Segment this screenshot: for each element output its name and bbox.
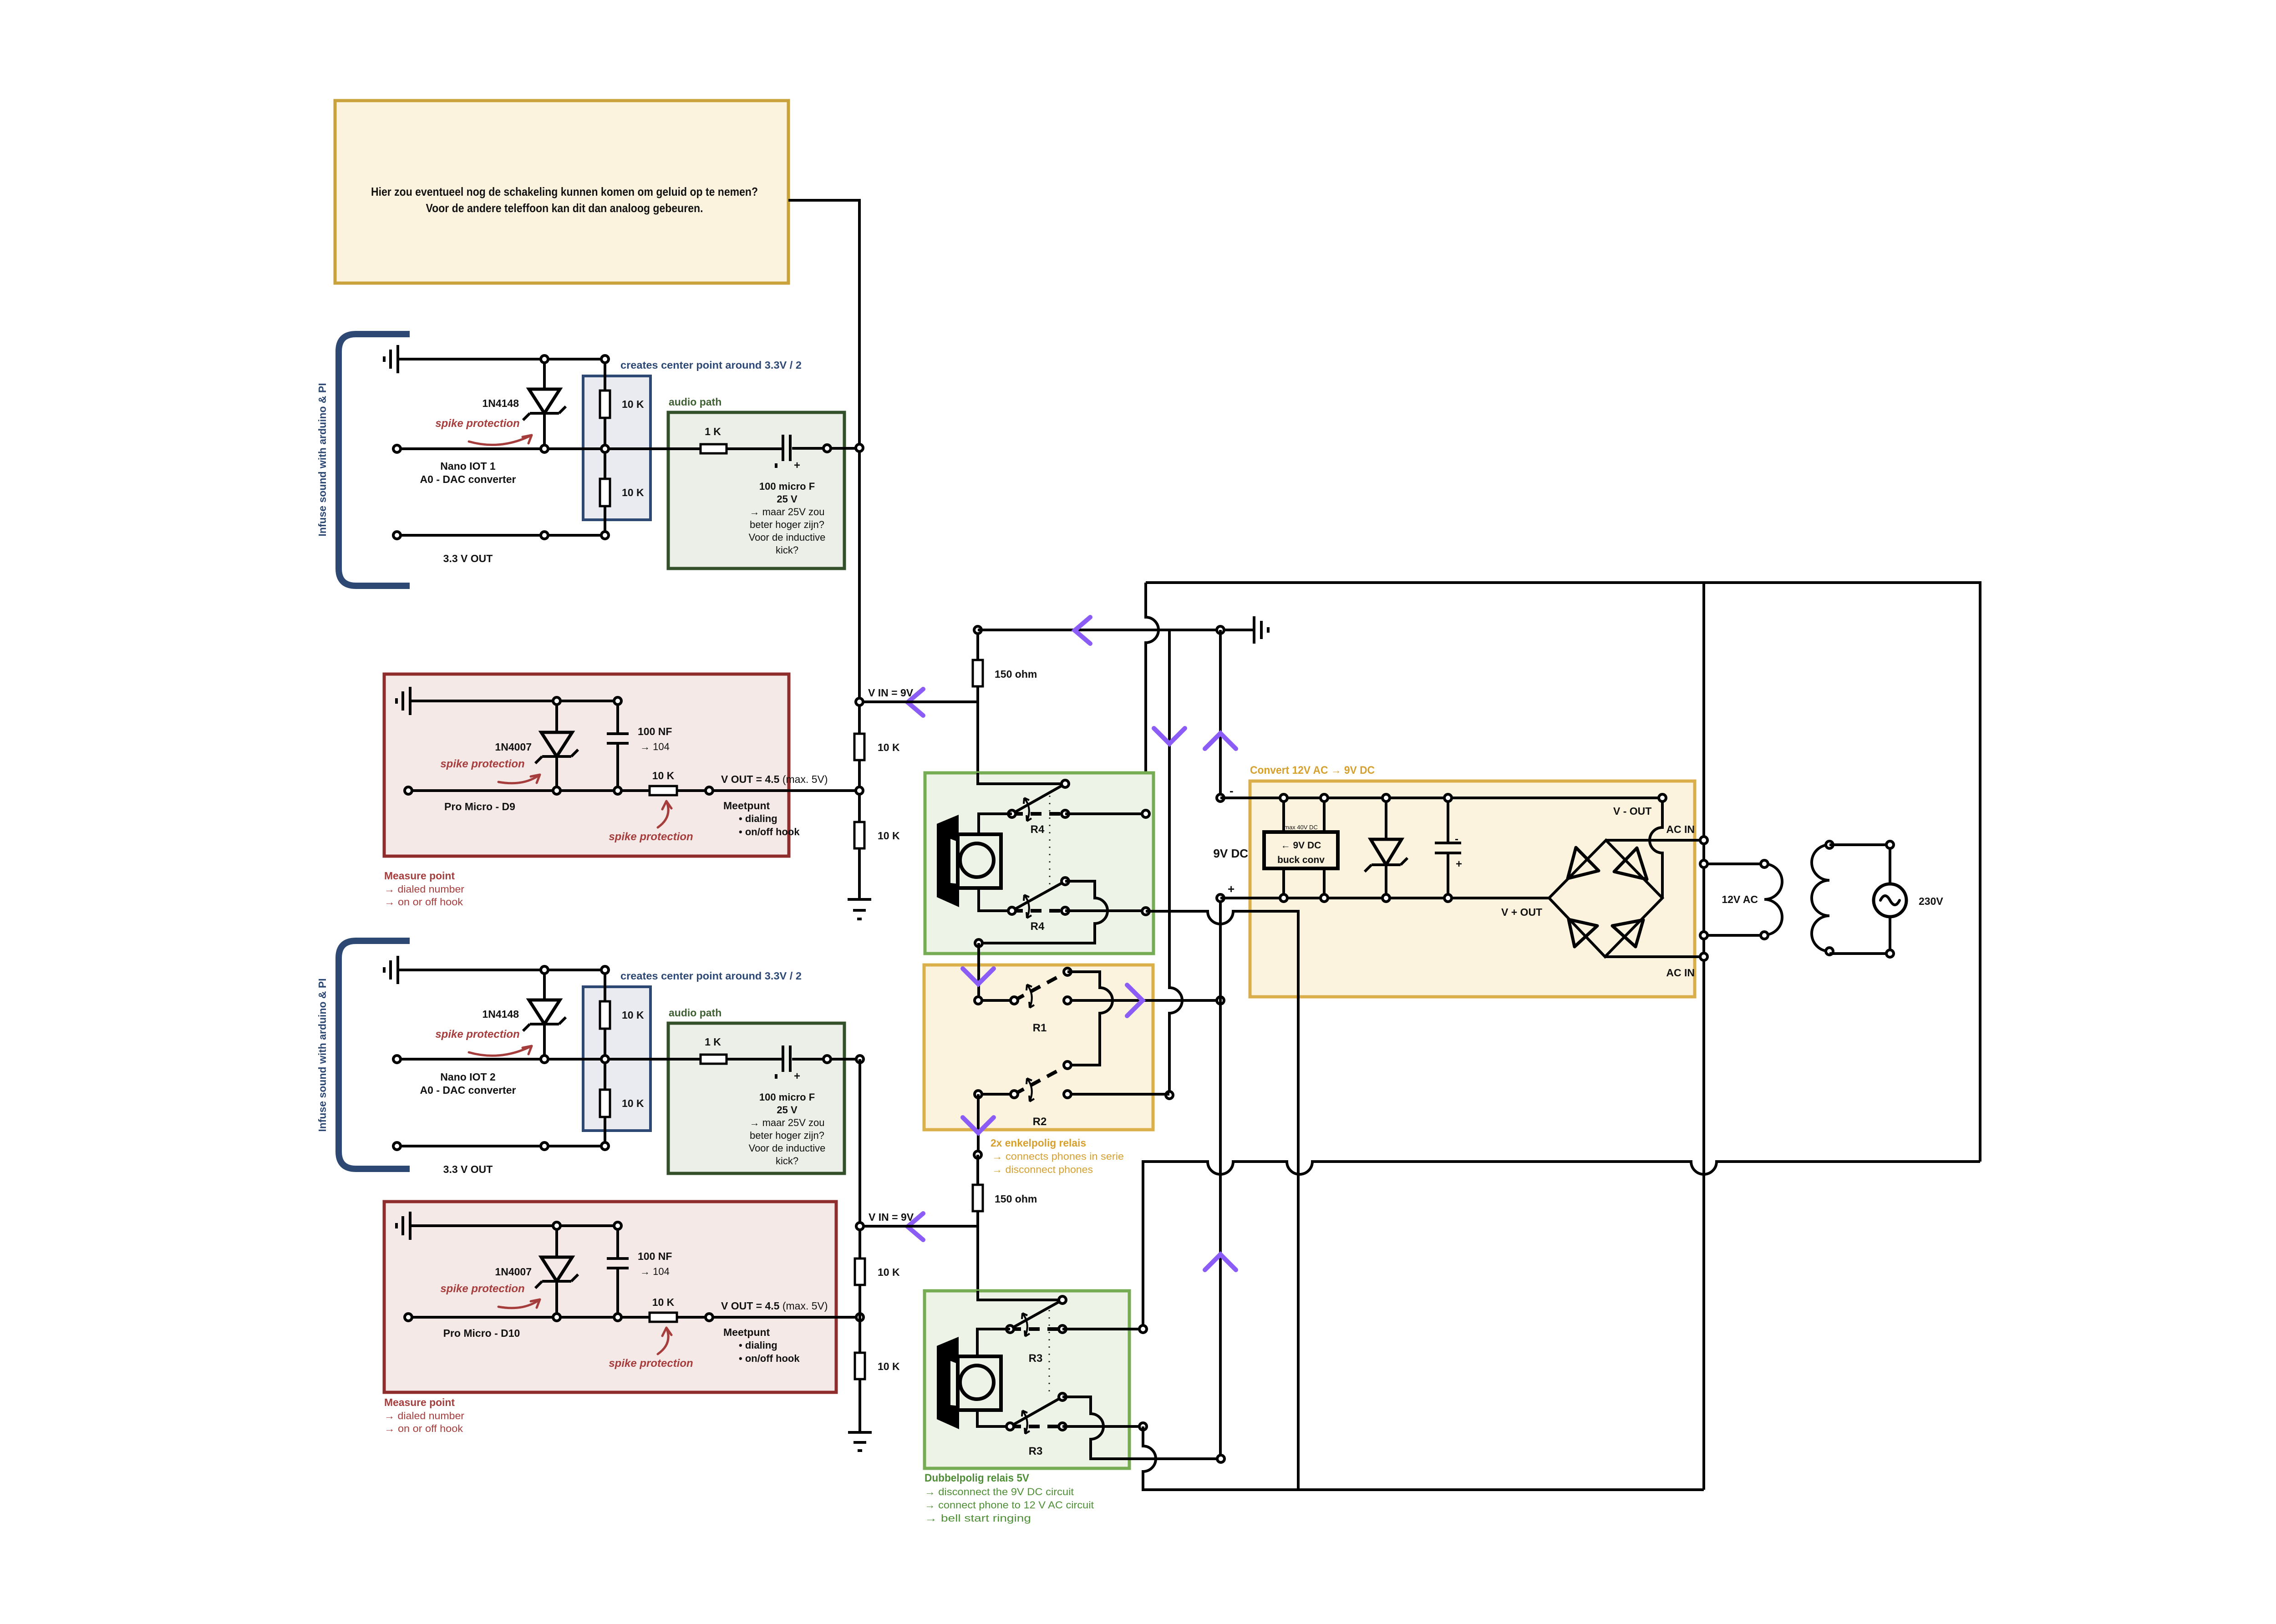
wire R3 entry — [978, 1291, 1062, 1300]
svg-text:V OUT = 4.5 (max. 5V): V OUT = 4.5 (max. 5V) — [721, 773, 828, 785]
wire audio2 out — [827, 1058, 860, 1061]
nodes buck rails — [1280, 794, 1328, 902]
chevron 9V plus up — [1205, 1254, 1236, 1270]
wire top rail D9 — [557, 700, 618, 702]
capacitor 100uF audio 1 — [776, 435, 823, 472]
svg-text:spike protection: spike protection — [440, 1283, 524, 1295]
nodes transformer trunk — [1700, 837, 1707, 960]
svg-text:100 NF: 100 NF — [638, 1250, 672, 1262]
svg-text:V + OUT: V + OUT — [1501, 906, 1542, 918]
node R4 top fixed out — [1142, 810, 1149, 817]
wire V IN upper — [859, 700, 978, 703]
resistor 10K divider top 1 — [600, 391, 610, 418]
wire V IN lower — [860, 1225, 978, 1228]
svg-text:audio path: audio path — [669, 1007, 721, 1019]
switch R3 top — [1006, 1296, 1066, 1336]
svg-text:→ maar 25V zou: → maar 25V zou — [749, 1117, 824, 1128]
wire AC IN top — [1606, 839, 1704, 842]
svg-text:230V: 230V — [1919, 895, 1943, 907]
switch R4 bottom — [1008, 878, 1069, 918]
wire divider chain 1 — [604, 359, 606, 535]
svg-text:→ 104: → 104 — [640, 741, 670, 752]
node line B end — [1166, 1091, 1173, 1099]
svg-text:R3: R3 — [1029, 1352, 1043, 1365]
node V-OUT rail — [1659, 794, 1666, 802]
svg-text:+: + — [794, 459, 800, 472]
node top link right — [1217, 626, 1224, 634]
node R4 bottom fixed out — [1142, 908, 1149, 915]
wire 230V loop bottom — [1829, 917, 1890, 954]
resistor 1K audio 2 — [701, 1055, 726, 1064]
node 9V plus terminal — [1217, 894, 1224, 902]
label Measure point D10 — [384, 1396, 464, 1434]
wire 230V loop top — [1829, 845, 1890, 884]
svg-text:→ dialed number: → dialed number — [384, 1410, 464, 1421]
svg-text:10 K: 10 K — [878, 741, 900, 753]
node 150 ohm top — [974, 626, 981, 634]
node 9V minus terminal — [1217, 794, 1224, 802]
resistor 10K series D10 — [650, 1313, 677, 1322]
svg-text:kick?: kick? — [776, 1155, 798, 1167]
svg-text:creates center point around 3.: creates center point around 3.3V / 2 — [620, 970, 802, 982]
svg-text:V OUT = 4.5 (max. 5V): V OUT = 4.5 (max. 5V) — [721, 1300, 828, 1312]
svg-text:10 K: 10 K — [652, 770, 675, 782]
audio path box 2 — [668, 1023, 844, 1173]
label 2x enkelpolig relais — [991, 1137, 1124, 1175]
relay R1 R2 box — [924, 965, 1153, 1130]
svg-text:→ connect phone to 12 V AC cir: → connect phone to 12 V AC circuit — [925, 1499, 1094, 1511]
switch R3 bottom — [1006, 1393, 1066, 1434]
svg-text:R4: R4 — [1031, 920, 1045, 933]
bracket Infuse sound 1 — [339, 334, 410, 586]
wire divider chain 2 — [604, 970, 606, 1146]
wire R3 fixed to bottom rail (with hop) — [1143, 1426, 1704, 1490]
svg-text:spike protection: spike protection — [609, 831, 693, 843]
wire DAC out row 2 — [397, 1058, 782, 1061]
wire R3 top fixed out — [1062, 1328, 1143, 1330]
svg-text:Voor de inductive: Voor de inductive — [749, 532, 826, 543]
wire lower bus — [859, 1059, 861, 1431]
svg-text:→ on or off hook: → on or off hook — [384, 896, 463, 908]
resistor 10K bus upper 2 — [854, 822, 864, 848]
svg-text:3.3 V OUT: 3.3 V OUT — [443, 553, 493, 564]
ground GND4 right — [1220, 616, 1268, 644]
svg-text:+: + — [1456, 858, 1462, 870]
svg-text:10 K: 10 K — [878, 830, 900, 842]
svg-text:A0 - DAC converter: A0 - DAC converter — [420, 1084, 516, 1096]
svg-text:10 K: 10 K — [622, 1009, 644, 1021]
resistor 10K bus upper 1 — [854, 734, 864, 760]
node terminals block 2 — [393, 966, 864, 1150]
ground GND6 — [396, 1212, 557, 1240]
svg-text:1 K: 1 K — [705, 426, 721, 437]
svg-text:Pro Micro - D10: Pro Micro - D10 — [443, 1327, 520, 1339]
chevron R4 to R1 — [963, 969, 994, 984]
diode 1N4007 D2 — [535, 701, 578, 791]
nodes secondary — [1826, 841, 1833, 955]
arrow spike protection D9b — [658, 801, 671, 827]
svg-text:Dubbelpolig relais 5V: Dubbelpolig relais 5V — [925, 1472, 1029, 1484]
svg-text:Meetpunt: Meetpunt — [723, 1326, 770, 1338]
wire R1-R2 link (with hop) — [1067, 972, 1113, 1065]
wire R4 bottom fixed out — [1065, 909, 1146, 912]
svg-text:V IN = 9V: V IN = 9V — [868, 687, 914, 699]
svg-text:25 V: 25 V — [777, 493, 798, 505]
resistor 10K divider top 2 — [600, 1001, 610, 1029]
svg-text:R4: R4 — [1031, 823, 1045, 836]
capacitor smoothing converter — [1435, 794, 1462, 902]
svg-text:R2: R2 — [1033, 1116, 1047, 1128]
svg-text:spike protection: spike protection — [435, 417, 519, 430]
svg-text:R1: R1 — [1033, 1022, 1047, 1034]
resistor 150 ohm upper — [973, 630, 1037, 774]
svg-text:buck conv: buck conv — [1277, 855, 1325, 865]
transformer T1 primary coil — [1764, 864, 1782, 935]
node 9V plus bottom — [1217, 1455, 1224, 1462]
ground GND2 — [396, 687, 557, 715]
svg-text:-: - — [1229, 784, 1234, 797]
svg-text:• on/off hook: • on/off hook — [739, 826, 800, 837]
wire line B — [1169, 630, 1182, 1095]
divider box 2 — [583, 987, 650, 1131]
node R4 coil end — [975, 939, 982, 947]
wire top rail D10 — [557, 1224, 618, 1227]
switch R2 — [975, 1061, 1169, 1101]
relay R4 box — [925, 773, 1153, 954]
svg-text:max 40V DC: max 40V DC — [1284, 824, 1318, 831]
node terminals D9 — [405, 697, 863, 794]
chevron line B down — [1154, 728, 1185, 744]
wire R4 pivot to phone top — [979, 814, 1012, 834]
divider box 1 — [583, 376, 650, 520]
wire R3 coil loop — [1062, 1397, 1221, 1459]
svg-text:2x enkelpolig relais: 2x enkelpolig relais — [991, 1137, 1086, 1149]
svg-text:1N4148: 1N4148 — [482, 397, 519, 409]
wire top rail block1 — [544, 358, 605, 360]
svg-text:beter hoger zijn?: beter hoger zijn? — [750, 519, 824, 530]
wire top link y1384 — [978, 629, 1220, 631]
svg-text:AC IN: AC IN — [1666, 823, 1695, 835]
node V IN upper — [856, 698, 863, 705]
transformer T1 secondary coil — [1812, 845, 1829, 951]
wire D9 row — [408, 789, 859, 792]
svg-text:→ disconnect the 9V DC circuit: → disconnect the 9V DC circuit — [925, 1486, 1074, 1497]
svg-text:→ bell start ringing: → bell start ringing — [925, 1512, 1031, 1524]
ground GND5 — [384, 956, 544, 984]
svg-text:V - OUT: V - OUT — [1613, 805, 1651, 817]
label Measure point D9 — [384, 870, 464, 908]
label Meetpunt D10 — [723, 1326, 800, 1364]
diode 1N4148 D3 — [523, 970, 566, 1059]
wire DAC out row 1 — [397, 447, 782, 450]
wire W2 right loop to R3 (with hops) — [1143, 1162, 1980, 1329]
chevron V IN lower — [908, 1213, 923, 1240]
chevron R1 out — [1127, 985, 1143, 1016]
wire AC IN bottom — [1605, 955, 1704, 958]
ground GND3 bus upper — [848, 899, 871, 919]
svg-text:creates center point around 3.: creates center point around 3.3V / 2 — [620, 359, 802, 371]
svg-text:1 K: 1 K — [705, 1036, 721, 1048]
arrow spike protection D10a — [498, 1299, 540, 1308]
label 100 micro F 2 — [749, 1091, 826, 1167]
svg-text:• dialing: • dialing — [739, 813, 777, 824]
wire V+ to converter (down line) — [1146, 911, 1298, 1490]
wire 9V minus rail — [1220, 797, 1662, 799]
svg-text:150 ohm: 150 ohm — [995, 1193, 1037, 1205]
audio path box 1 — [668, 412, 844, 568]
wire R4 entry — [978, 773, 1065, 784]
resistor 1K audio 1 — [701, 444, 726, 453]
phone icon 1 — [937, 815, 1001, 907]
arrow spike protection block2 — [469, 1046, 532, 1056]
svg-text:kick?: kick? — [776, 544, 798, 556]
resistor 10K bus lower 1 — [855, 1259, 865, 1285]
wire primary top stub — [1704, 863, 1764, 865]
svg-text:→ maar 25V zou: → maar 25V zou — [749, 506, 824, 518]
svg-text:1N4007: 1N4007 — [495, 1266, 532, 1278]
svg-text:150 ohm: 150 ohm — [995, 668, 1037, 680]
wire line A R4 fixed to top rail (with hop) — [1146, 583, 1158, 814]
bracket Infuse sound 2 — [339, 941, 410, 1169]
svg-text:A0 - DAC converter: A0 - DAC converter — [420, 473, 516, 485]
chevron V IN upper — [908, 689, 923, 716]
buck converter U1 — [1264, 798, 1338, 898]
ground GND7 bus lower — [848, 1432, 872, 1451]
note box (Hier zou eventueel...) — [335, 101, 788, 283]
node V IN lower — [856, 1223, 864, 1230]
wire phone bottom to R4 pivot2 — [979, 888, 1012, 911]
capacitor 100NF D10 — [607, 1226, 629, 1317]
bridge rectifier BR1 — [1549, 840, 1662, 957]
chevron top link — [1075, 617, 1090, 644]
wire 9V plus line — [1219, 898, 1222, 1459]
converter box — [1250, 781, 1695, 997]
svg-text:Nano IOT 1: Nano IOT 1 — [440, 460, 496, 472]
svg-text:+: + — [794, 1070, 800, 1082]
resistor 10K divider bottom 1 — [600, 479, 610, 506]
svg-text:10 K: 10 K — [652, 1296, 675, 1308]
svg-text:spike protection: spike protection — [440, 758, 524, 770]
wire R4 coil to R1 — [977, 943, 980, 1000]
wire line C 9V minus — [1219, 630, 1222, 798]
svg-text:beter hoger zijn?: beter hoger zijn? — [750, 1130, 824, 1141]
svg-text:9V DC: 9V DC — [1213, 847, 1248, 860]
chevron line C up — [1205, 733, 1236, 749]
chevron R2 down — [963, 1117, 994, 1133]
resistor 150 ohm lower — [973, 1155, 1037, 1292]
wire R3 bottom fixed out — [1062, 1425, 1143, 1428]
svg-text:+: + — [1228, 882, 1235, 896]
mech link R4 — [1049, 796, 1051, 888]
resistor 10K series D9 — [650, 786, 677, 795]
label Meetpunt D9 — [723, 800, 800, 837]
svg-text:-: - — [1455, 833, 1458, 845]
node R1 out at 9V+ — [1217, 997, 1224, 1004]
svg-text:1N4007: 1N4007 — [495, 741, 532, 753]
svg-text:Infuse sound with arduino & PI: Infuse sound with arduino & PI — [316, 978, 328, 1132]
resistor 10K divider bottom 2 — [600, 1090, 610, 1117]
ground GND1 — [384, 345, 544, 373]
relay R3 box — [925, 1291, 1129, 1468]
Pro Micro D9 box — [384, 674, 789, 856]
svg-text:100 micro F: 100 micro F — [759, 481, 815, 492]
mech link R3 — [1049, 1310, 1050, 1396]
wire R3 pivot to phone top — [977, 1329, 1010, 1356]
svg-text:→ connects phones in serie: → connects phones in serie — [992, 1151, 1124, 1162]
svg-text:R3: R3 — [1029, 1445, 1043, 1457]
wire note box to main bus — [788, 200, 859, 898]
top rail — [1146, 583, 1980, 1162]
arrow spike protection D10b — [658, 1328, 671, 1354]
svg-text:→ dialed number: → dialed number — [384, 883, 464, 895]
node R3 bottom fixed — [1139, 1423, 1147, 1430]
node terminals block 1 — [393, 355, 863, 539]
svg-text:10 K: 10 K — [622, 398, 644, 410]
wire top rail block2 — [544, 969, 605, 971]
zener diode Z1 converter — [1365, 794, 1407, 902]
svg-text:10 K: 10 K — [878, 1266, 900, 1278]
wire audio1 out — [827, 447, 859, 450]
svg-text:Measure point: Measure point — [384, 1396, 455, 1408]
node 150 ohm lower top — [974, 1151, 981, 1158]
svg-text:100 NF: 100 NF — [638, 726, 672, 737]
svg-text:• dialing: • dialing — [739, 1340, 777, 1351]
svg-text:spike protection: spike protection — [609, 1357, 693, 1370]
nodes primary — [1761, 860, 1768, 939]
svg-text:AC IN: AC IN — [1666, 967, 1695, 979]
wire 3.3V out row 1 — [397, 534, 605, 537]
svg-text:audio path: audio path — [669, 396, 721, 408]
svg-text:Hier zou eventueel nog de scha: Hier zou eventueel nog de schakeling kun… — [371, 185, 758, 198]
arrow spike protection D9a — [498, 775, 540, 783]
wire R4 top fixed out — [1065, 812, 1146, 815]
nodes 230V loop — [1886, 841, 1894, 957]
wire V-OUT to bridge (with hop) — [1650, 798, 1662, 898]
svg-text:10 K: 10 K — [878, 1360, 900, 1372]
svg-text:← 9V DC: ← 9V DC — [1281, 840, 1321, 851]
svg-text:10 K: 10 K — [622, 487, 644, 498]
arrow spike protection 1 — [469, 435, 532, 445]
AC source 230V — [1874, 884, 1906, 917]
diode 1N4007 D4 — [535, 1226, 578, 1317]
diode 1N4148 D1 — [523, 359, 566, 449]
svg-text:V IN = 9V: V IN = 9V — [869, 1211, 914, 1223]
node R3 top fixed — [1139, 1325, 1147, 1333]
svg-text:→ on or off hook: → on or off hook — [384, 1423, 463, 1434]
switch R4 top — [1008, 780, 1069, 821]
svg-text:3.3 V OUT: 3.3 V OUT — [443, 1163, 493, 1175]
svg-text:Meetpunt: Meetpunt — [723, 800, 770, 812]
svg-text:Nano IOT 2: Nano IOT 2 — [440, 1071, 495, 1083]
switch R1 — [975, 968, 1220, 1008]
svg-text:→ 104: → 104 — [640, 1266, 670, 1277]
svg-text:100 micro F: 100 micro F — [759, 1091, 815, 1103]
wire primary bottom stub — [1704, 934, 1764, 937]
svg-text:25 V: 25 V — [777, 1104, 798, 1116]
phone icon 2 — [937, 1337, 1001, 1429]
label Dubbelpolig relais — [925, 1472, 1094, 1524]
wire D10 row — [408, 1316, 860, 1319]
svg-text:12V AC: 12V AC — [1722, 893, 1758, 905]
wire transformer trunk — [1702, 583, 1705, 1490]
svg-text:1N4148: 1N4148 — [482, 1008, 519, 1020]
svg-text:Convert 12V AC → 9V DC: Convert 12V AC → 9V DC — [1250, 764, 1375, 776]
label 100 micro F 1 — [749, 481, 826, 556]
resistor 10K bus lower 2 — [855, 1353, 865, 1379]
svg-text:Voor de andere teleffoon kan d: Voor de andere teleffoon kan dit dan ana… — [426, 201, 703, 215]
node terminals D10 — [405, 1222, 864, 1321]
capacitor 100NF D9 — [607, 701, 629, 791]
svg-text:• on/off hook: • on/off hook — [739, 1353, 800, 1364]
capacitor 100uF audio 2 — [776, 1045, 823, 1082]
wire 3.3V out row 2 — [397, 1145, 605, 1147]
wire 9V plus rail — [1220, 897, 1549, 899]
svg-text:spike protection: spike protection — [435, 1028, 519, 1040]
svg-text:→ disconnect phones: → disconnect phones — [992, 1164, 1093, 1175]
wire phone2 bottom to R3 pivot2 — [977, 1410, 1010, 1426]
svg-text:Voor de inductive: Voor de inductive — [749, 1142, 826, 1154]
svg-text:Infuse sound with arduino & PI: Infuse sound with arduino & PI — [316, 383, 328, 536]
wire R2 left to 150ohm lower — [977, 1094, 980, 1155]
wire R4 coil loop — [979, 881, 1108, 943]
svg-text:Measure point: Measure point — [384, 870, 455, 882]
Pro Micro D10 box — [384, 1202, 836, 1392]
svg-text:10 K: 10 K — [622, 1097, 644, 1109]
svg-text:Pro Micro - D9: Pro Micro - D9 — [444, 801, 515, 812]
